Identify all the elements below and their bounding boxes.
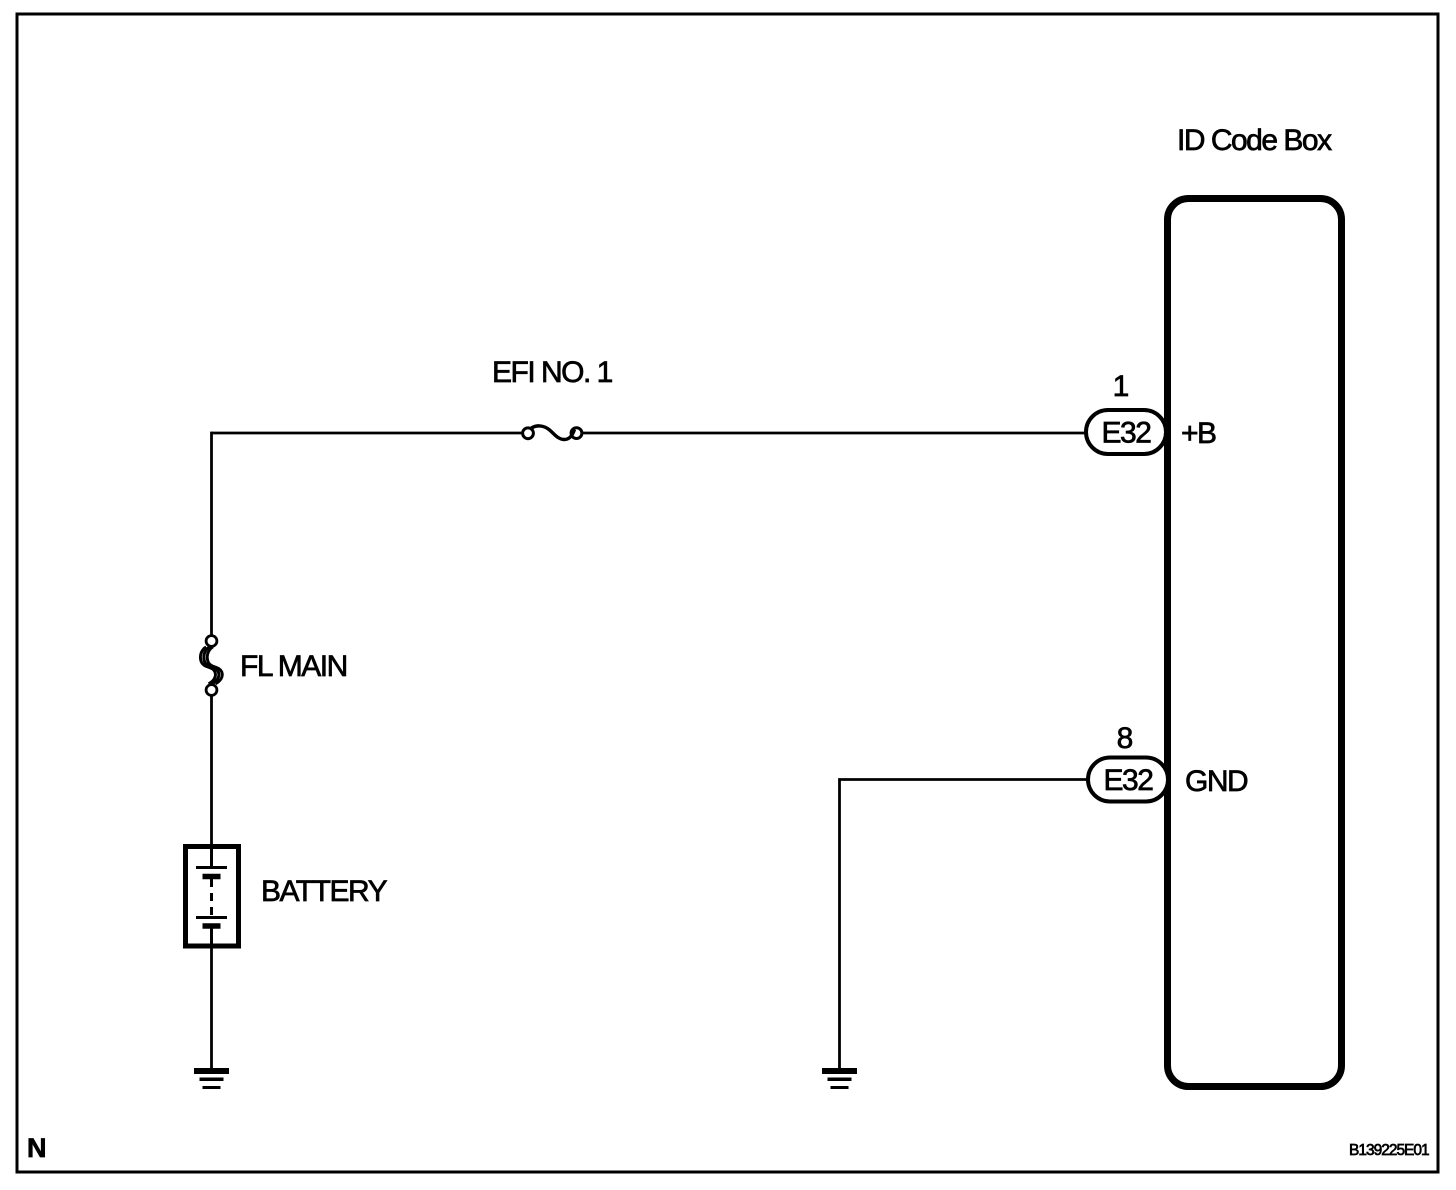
svg-text:BATTERY: BATTERY	[261, 875, 388, 908]
label "EFI NO. 1"	[492, 356, 613, 389]
wire: fuse to +B pin (horizontal, y=433)	[583, 432, 1087, 435]
wire: battery to ground (vertical, x=211.5)	[210, 946, 213, 1068]
label "ID Code Box"	[1177, 124, 1332, 157]
ground (GND pin)	[822, 1068, 857, 1089]
svg-text:EFI NO. 1: EFI NO. 1	[492, 356, 613, 389]
svg-text:1: 1	[1113, 370, 1130, 403]
label "BATTERY"	[261, 875, 388, 908]
svg-text:ID Code Box: ID Code Box	[1177, 124, 1332, 157]
pin name +B	[1181, 417, 1216, 450]
svg-text:GND: GND	[1185, 765, 1248, 798]
svg-text:8: 8	[1117, 722, 1134, 755]
connector E32 pin 8	[1088, 758, 1168, 802]
connector E32 pin 1	[1086, 410, 1166, 454]
svg-text:N: N	[27, 1133, 47, 1163]
svg-text:+B: +B	[1181, 417, 1216, 450]
svg-text:E32: E32	[1104, 764, 1154, 797]
wire: GND pin to ground (horizontal then vertical)	[840, 780, 1090, 1069]
pin number 1	[1113, 370, 1130, 403]
label "FL MAIN"	[240, 650, 347, 683]
label N	[27, 1133, 47, 1163]
battery	[186, 846, 239, 947]
pin number 8	[1117, 722, 1134, 755]
ground (battery)	[194, 1068, 229, 1089]
label B139225E01	[1349, 1142, 1429, 1159]
ID Code Box U1	[1168, 199, 1342, 1087]
svg-text:E32: E32	[1102, 417, 1152, 450]
pin name GND	[1185, 765, 1248, 798]
fuse EFI NO. 1	[523, 426, 582, 440]
svg-text:B139225E01: B139225E01	[1349, 1142, 1429, 1159]
wire: battery branch to fuse (horizontal, y=433)	[212, 432, 523, 435]
fusible link FL MAIN	[200, 636, 222, 696]
svg-text:FL MAIN: FL MAIN	[240, 650, 347, 683]
wire: fusible link to battery (vertical, x=211.5)	[210, 696, 213, 846]
wire: main wire down left side (vertical, x=211.5)	[210, 432, 213, 635]
